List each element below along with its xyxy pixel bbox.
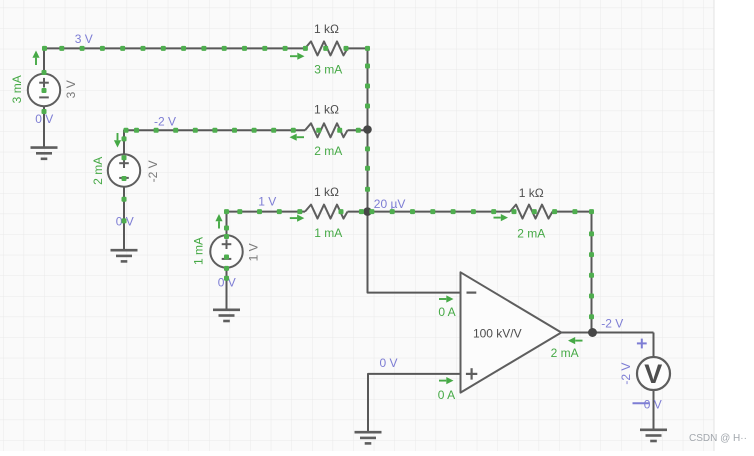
wire vertical bus junction J1 to node 20uV <box>367 130 369 212</box>
svg-text:100 kV/V: 100 kV/V <box>473 326 522 340</box>
op-amp non-inverting input marker <box>466 373 477 375</box>
current arrow V3 branch up <box>218 221 220 228</box>
svg-text:1 kΩ: 1 kΩ <box>314 22 339 36</box>
wire V2 top to R2 <box>124 130 305 154</box>
svg-text:-2 V: -2 V <box>601 316 623 330</box>
op-amp U1 100 kV/V <box>461 272 562 392</box>
ground G3 below V3 <box>213 308 240 311</box>
wire V2 bottom to ground <box>123 187 125 251</box>
current dots -2V branch <box>124 128 129 133</box>
resistor R2 1 kOhm <box>305 123 348 137</box>
wire R4 to feedback corner <box>553 212 592 333</box>
wire R3 to node 20uV and on to R4 <box>348 211 511 213</box>
op-amp inverting input marker <box>467 292 477 294</box>
current arrow into op-amp output left <box>575 340 582 342</box>
svg-text:-2 V: -2 V <box>154 114 176 128</box>
svg-text:1 kΩ: 1 kΩ <box>314 185 339 199</box>
ground G1 below V1 <box>31 146 58 149</box>
wire V3 top to R3 <box>227 212 306 236</box>
junction J1 R2 joins bus <box>363 125 372 134</box>
current arrow out of R2 left <box>297 136 304 138</box>
output node junction <box>588 328 597 337</box>
svg-text:-2 V: -2 V <box>146 160 160 182</box>
svg-text:3 mA: 3 mA <box>10 75 24 103</box>
voltmeter minus terminal marker <box>633 402 650 404</box>
svg-text:0 A: 0 A <box>438 305 455 319</box>
svg-text:1 mA: 1 mA <box>314 226 342 240</box>
current dots 1V branch <box>224 209 229 214</box>
svg-text:3 V: 3 V <box>75 32 93 46</box>
svg-text:V: V <box>644 359 662 389</box>
current arrow V1 branch up <box>35 58 37 65</box>
wire ground to non-inverting input <box>368 374 461 432</box>
svg-text:20 µV: 20 µV <box>374 197 406 211</box>
voltage source V3 1V <box>210 235 242 267</box>
voltmeter plus terminal marker <box>637 342 647 344</box>
wire R1 to vertical bus <box>348 48 368 129</box>
svg-text:3 V: 3 V <box>64 80 78 98</box>
resistor R3 1 kOhm <box>305 205 348 219</box>
svg-text:1 kΩ: 1 kΩ <box>519 186 544 200</box>
voltmeter M1 <box>637 357 670 390</box>
node 20uV junction <box>363 207 372 216</box>
wire node 20uV down to inverting input <box>368 212 461 293</box>
wire op-amp output to voltmeter corner <box>561 332 654 334</box>
label current 0 A inverting <box>439 298 446 300</box>
svg-text:0 V: 0 V <box>644 398 662 412</box>
svg-text:0 V: 0 V <box>379 356 397 370</box>
wire V1 top to R1 <box>44 48 305 73</box>
resistor R4 1 kOhm feedback <box>510 205 553 219</box>
svg-text:2 mA: 2 mA <box>314 144 342 158</box>
svg-text:2 mA: 2 mA <box>551 346 579 360</box>
svg-text:0 A: 0 A <box>438 388 455 402</box>
svg-text:0 V: 0 V <box>35 112 53 126</box>
wire corner down to voltmeter plus terminal <box>653 333 655 358</box>
voltage source V2 -2V <box>108 154 140 186</box>
current arrow into R3 right <box>290 217 297 219</box>
wire R2 to junction J1 <box>348 129 368 131</box>
svg-text:3 mA: 3 mA <box>314 63 342 77</box>
svg-text:-2 V: -2 V <box>619 363 633 385</box>
svg-text:1 V: 1 V <box>247 243 261 261</box>
wire V1 bottom to ground <box>43 106 45 147</box>
svg-text:1 V: 1 V <box>258 194 276 208</box>
svg-text:CSDN @ H··: CSDN @ H·· <box>689 433 747 444</box>
voltage source V1 3V <box>28 74 60 106</box>
current dots 3V branch <box>42 46 47 51</box>
ground G5 below voltmeter <box>640 428 667 431</box>
svg-text:1 kΩ: 1 kΩ <box>314 102 339 116</box>
current dots node to R4 and feedback <box>369 209 374 214</box>
current arrow into R1 right <box>290 55 297 57</box>
wire V3 bottom to ground <box>226 268 228 310</box>
svg-text:2 mA: 2 mA <box>91 157 105 185</box>
ground G2 below V2 <box>111 249 138 252</box>
svg-text:1 mA: 1 mA <box>191 237 205 265</box>
current arrow V2 branch down <box>117 133 119 140</box>
label current 0 A non-inverting <box>439 380 446 382</box>
svg-text:2 mA: 2 mA <box>517 226 545 240</box>
ground G4 non-inverting input <box>355 431 382 434</box>
current dots bus between junctions <box>365 146 370 151</box>
current arrow into R4 right <box>494 217 501 219</box>
wire voltmeter minus terminal to ground <box>653 390 655 430</box>
resistor R1 1 kOhm <box>305 41 348 55</box>
